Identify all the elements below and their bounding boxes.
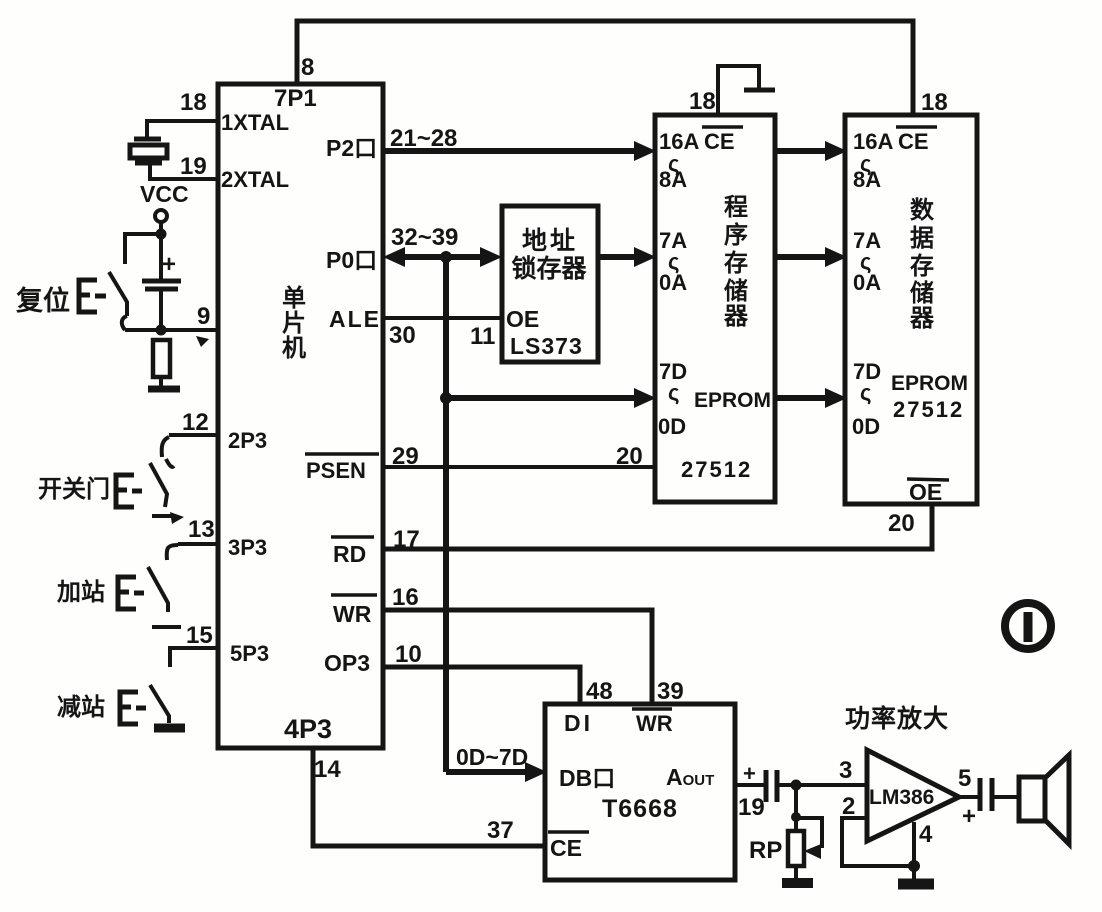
svg-text:18: 18 — [180, 89, 207, 116]
svg-text:器: 器 — [723, 303, 749, 330]
svg-text:4P3: 4P3 — [284, 714, 332, 744]
svg-text:程: 程 — [724, 194, 748, 221]
switch S2 blade — [150, 463, 167, 507]
svg-text:ς: ς — [668, 380, 679, 405]
svg-text:3P3: 3P3 — [228, 535, 267, 560]
svg-text:5: 5 — [958, 765, 971, 792]
svg-text:锁存器: 锁存器 — [511, 254, 587, 283]
wire resistor to ground — [159, 377, 163, 388]
wire 2P3 pin12 — [169, 433, 218, 437]
svg-text:CE: CE — [704, 129, 735, 154]
wire 5P3 pin15 — [170, 648, 218, 667]
switch S2 top contact — [166, 459, 174, 467]
wire RP to ground — [794, 866, 798, 878]
svg-text:地址: 地址 — [522, 227, 578, 255]
wire pin 9 — [125, 328, 218, 332]
svg-text:13: 13 — [188, 516, 215, 543]
switch S3 bottom bar — [152, 625, 181, 629]
node P0 junction — [440, 251, 452, 263]
svg-text:14: 14 — [314, 756, 341, 783]
svg-text:RP: RP — [749, 837, 782, 864]
switch S1 reset blade — [109, 272, 127, 316]
svg-text:OP3: OP3 — [324, 650, 370, 676]
resistor R1 — [153, 340, 170, 377]
wire LM386 pin4 — [912, 822, 916, 879]
svg-text:9: 9 — [197, 303, 210, 330]
wire program CE to ground — [718, 66, 759, 115]
switch S4 blade — [150, 685, 169, 723]
capacitor C1 — [142, 279, 181, 284]
svg-text:开关门: 开关门 — [38, 475, 110, 503]
svg-text:WR: WR — [636, 711, 673, 736]
svg-text:ALE: ALE — [329, 306, 381, 332]
program EPROM U3 box — [655, 115, 775, 502]
svg-text:PSEN: PSEN — [306, 458, 366, 483]
svg-text:5P3: 5P3 — [230, 641, 269, 666]
svg-text:单: 单 — [282, 285, 306, 312]
voice chip U5 T6668 box — [545, 704, 735, 880]
svg-text:OE: OE — [506, 306, 539, 332]
svg-text:RD: RD — [333, 541, 366, 567]
svg-text:CE: CE — [550, 835, 582, 861]
ground reset — [148, 386, 180, 393]
svg-text:数: 数 — [910, 197, 935, 224]
wire data bus to DB port — [446, 769, 530, 775]
svg-text:复位: 复位 — [16, 285, 70, 316]
svg-text:2: 2 — [842, 793, 855, 820]
wire OP3 to T6668 pin48 — [383, 667, 580, 704]
wire P2 bus to program EPROM — [383, 148, 640, 154]
wire 3P3 pin13 — [178, 542, 218, 546]
ground program CE — [744, 88, 775, 93]
svg-text:0A: 0A — [659, 270, 687, 295]
switch S2 bar and arrow — [152, 514, 174, 518]
data EPROM U4 box — [845, 115, 977, 504]
wire cap to LM386 pin3 — [779, 783, 867, 787]
op-amp U6 LM386 triangle — [867, 750, 959, 841]
annotation circled 1 — [1005, 603, 1051, 649]
svg-text:据: 据 — [910, 225, 934, 252]
svg-text:18: 18 — [921, 89, 948, 116]
svg-text:0D: 0D — [658, 414, 686, 439]
wire XTAL1 pin18 — [147, 121, 218, 137]
symbol E-bracket add — [118, 577, 136, 609]
capacitor C3 — [978, 778, 983, 811]
wire P0 data bus vertical — [443, 257, 449, 772]
svg-text:20: 20 — [616, 443, 643, 470]
wire XTAL2 pin19 — [150, 165, 218, 179]
svg-text:WR: WR — [333, 601, 372, 627]
node audio junction — [791, 780, 802, 791]
wire VCC stem — [159, 222, 163, 236]
wire AOUT to coupling cap — [735, 783, 764, 787]
svg-text:LS373: LS373 — [510, 333, 583, 359]
latch U2 地址锁存器 box — [502, 206, 598, 362]
svg-text:序: 序 — [724, 221, 748, 249]
svg-text:8: 8 — [301, 54, 314, 81]
wire cap to speaker — [994, 795, 1019, 799]
svg-text:0D: 0D — [852, 414, 880, 439]
svg-text:储: 储 — [724, 277, 748, 305]
symbol E-bracket reset — [79, 280, 97, 312]
svg-text:17: 17 — [393, 526, 420, 553]
potentiometer RP stem — [794, 785, 798, 831]
node RP junction — [791, 812, 801, 822]
svg-text:加站: 加站 — [57, 579, 105, 606]
svg-text:+: + — [962, 803, 976, 830]
svg-text:29: 29 — [392, 443, 419, 470]
wire top bus P1.7 to data EPROM CE — [297, 21, 913, 115]
svg-text:18: 18 — [689, 88, 716, 115]
speaker LS1 — [1019, 777, 1045, 821]
switch S3 blade — [148, 567, 168, 612]
svg-text:VCC: VCC — [140, 181, 189, 207]
wires program to data EPROM arrows — [775, 148, 832, 154]
svg-text:37: 37 — [487, 817, 514, 844]
capacitor C2 — [764, 770, 769, 802]
svg-text:20: 20 — [888, 510, 915, 537]
svg-text:21~28: 21~28 — [390, 125, 457, 152]
svg-text:ς: ς — [860, 380, 871, 405]
wire ALE to latch OE — [383, 316, 502, 320]
node VCC junction — [156, 229, 167, 240]
symbol E-bracket door — [116, 475, 134, 507]
svg-text:16: 16 — [392, 584, 419, 611]
svg-text:19: 19 — [738, 794, 765, 821]
svg-text:T6668: T6668 — [602, 795, 678, 823]
svg-text:48: 48 — [586, 678, 613, 705]
ground switch chain — [154, 724, 185, 733]
wire latch to program EPROM 7A — [598, 254, 640, 260]
svg-text:8A: 8A — [659, 167, 687, 192]
wire reset foot — [122, 316, 127, 330]
svg-text:0A: 0A — [853, 270, 881, 295]
switch S3 hook — [167, 545, 178, 560]
svg-text:+: + — [743, 761, 756, 786]
svg-text:DB口: DB口 — [559, 765, 615, 791]
svg-text:12: 12 — [182, 409, 209, 436]
svg-text:1XTAL: 1XTAL — [221, 110, 289, 135]
svg-text:片: 片 — [282, 310, 306, 337]
svg-text:P2口: P2口 — [326, 135, 377, 161]
wire pin14 to T6668 CE — [313, 748, 545, 846]
svg-text:3: 3 — [839, 757, 852, 784]
wire LM386 out — [959, 795, 978, 799]
symbol E-bracket minus — [120, 692, 138, 724]
svg-text:P0口: P0口 — [326, 247, 377, 273]
potentiometer RP wiper — [796, 818, 822, 848]
svg-text:LM386: LM386 — [869, 786, 934, 809]
potentiometer RP body — [788, 831, 804, 866]
svg-text:存: 存 — [910, 253, 934, 280]
svg-text:0D~7D: 0D~7D — [456, 744, 528, 770]
node 7D junction — [440, 392, 452, 404]
crystal X1 — [134, 137, 161, 142]
svg-text:19: 19 — [180, 153, 207, 180]
svg-text:15: 15 — [186, 622, 213, 649]
svg-text:存: 存 — [724, 250, 748, 277]
wire reset branch — [125, 234, 161, 264]
svg-text:储: 储 — [910, 279, 934, 307]
svg-text:减站: 减站 — [57, 694, 105, 721]
wire cap bottom to node — [159, 291, 163, 334]
svg-text:2P3: 2P3 — [228, 428, 267, 453]
node pin4 junction — [908, 860, 920, 872]
svg-text:4: 4 — [919, 821, 933, 848]
wire cap top — [159, 234, 163, 279]
wire P0 bus bidirectional — [392, 254, 494, 260]
svg-text:10: 10 — [395, 641, 422, 668]
node reset pin9 junction — [156, 325, 167, 336]
svg-text:7P1: 7P1 — [274, 85, 317, 112]
svg-text:OE: OE — [909, 479, 942, 505]
node VCC terminal — [155, 210, 167, 222]
arrow annotation pin9 — [196, 336, 209, 347]
wire LM386 pin2 bracket — [842, 818, 914, 866]
svg-text:机: 机 — [282, 335, 306, 362]
svg-text:+: + — [162, 251, 176, 278]
svg-text:器: 器 — [909, 305, 935, 332]
wire RD to data EPROM OE — [383, 504, 932, 549]
svg-text:11: 11 — [470, 323, 495, 350]
svg-text:39: 39 — [657, 678, 684, 705]
op-amp U1 microcontroller 单片机 box — [218, 84, 383, 748]
wire PSEN to program EPROM pin20 — [383, 465, 654, 469]
svg-text:CE: CE — [898, 129, 929, 154]
svg-text:EPROM: EPROM — [694, 389, 771, 412]
svg-text:DI: DI — [564, 710, 593, 736]
svg-text:27512: 27512 — [893, 397, 964, 422]
ground LM386 — [898, 879, 934, 890]
svg-text:27512: 27512 — [681, 457, 752, 482]
wire WR to T6668 pin39 — [383, 610, 652, 704]
svg-text:EPROM: EPROM — [891, 372, 968, 395]
svg-text:功率放大: 功率放大 — [845, 704, 949, 733]
svg-text:2XTAL: 2XTAL — [221, 167, 289, 192]
wire 7D bus to program EPROM — [446, 395, 640, 401]
svg-text:32~39: 32~39 — [391, 224, 458, 251]
switch S2 door hook — [162, 437, 169, 457]
svg-text:30: 30 — [389, 322, 416, 349]
svg-text:8A: 8A — [853, 167, 881, 192]
ground RP — [782, 878, 813, 888]
